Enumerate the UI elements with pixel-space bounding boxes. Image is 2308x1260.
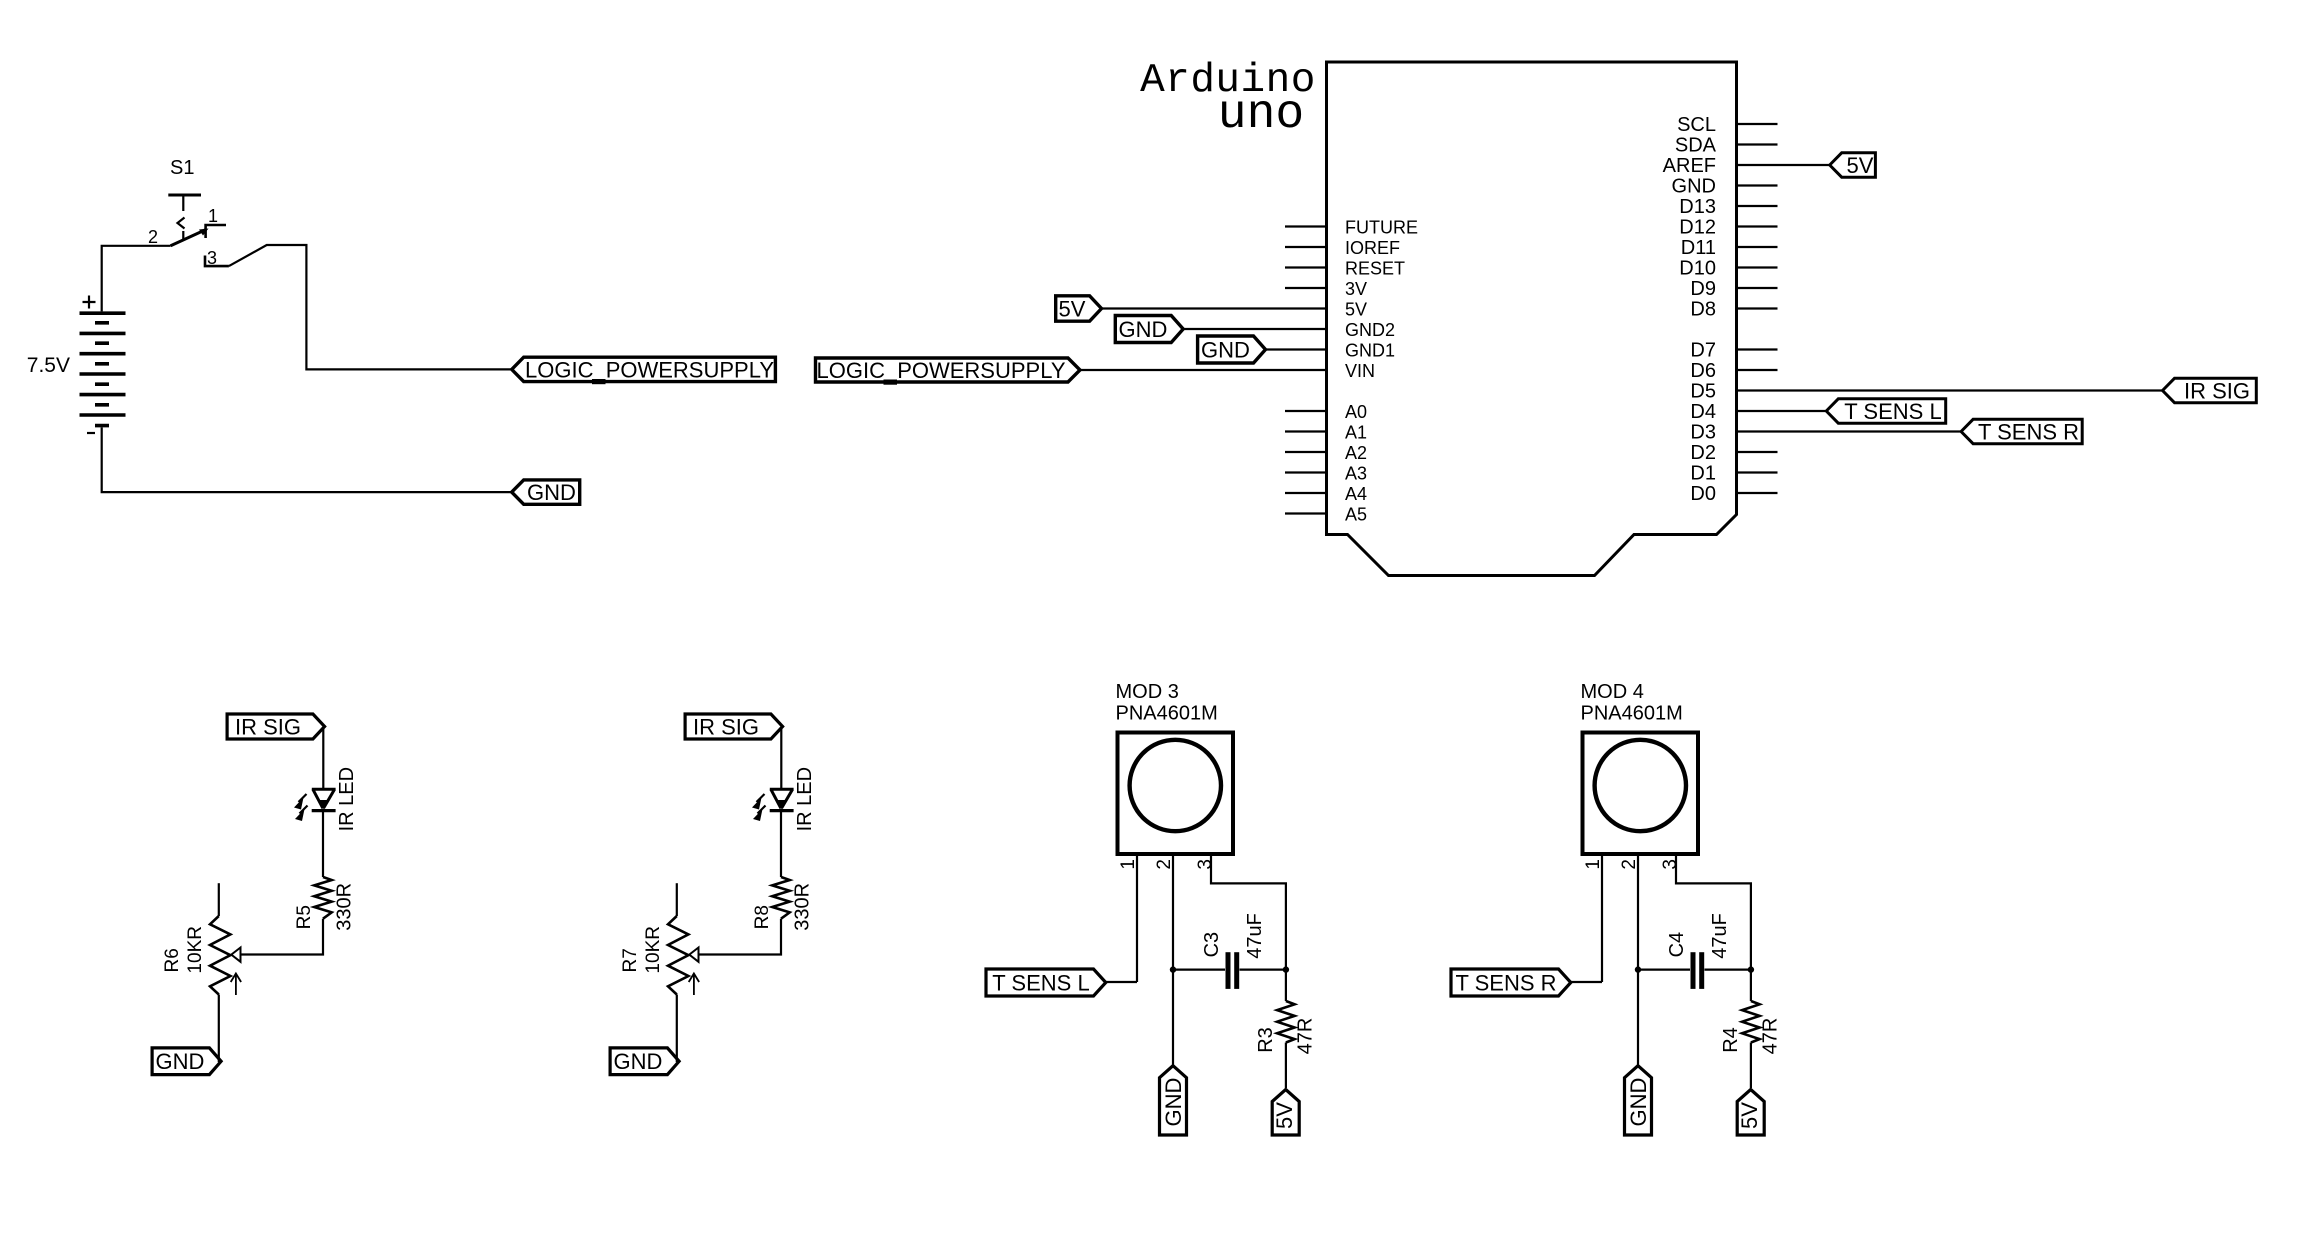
actuator dashed link <box>182 197 184 212</box>
LED D2 IR LED <box>752 767 816 831</box>
svg-text:AREF: AREF <box>1663 155 1716 177</box>
svg-text:GND: GND <box>156 1049 205 1074</box>
left pin A3 <box>1285 471 1327 473</box>
net flag IR SIG <box>2163 378 2257 403</box>
svg-text:GND1: GND1 <box>1345 341 1395 361</box>
svg-text:10KR: 10KR <box>185 926 206 974</box>
svg-text:10KR: 10KR <box>643 926 664 974</box>
wire pot to GND <box>219 995 221 1062</box>
svg-text:2: 2 <box>1619 859 1640 870</box>
wire pin AREF to 5V flag <box>1737 164 1830 166</box>
svg-text:1: 1 <box>208 206 218 226</box>
left pin IOREF <box>1285 246 1327 248</box>
svg-text:IR LED: IR LED <box>794 767 816 831</box>
net flag 5V <box>1830 153 1876 178</box>
wire 5V flag to pin 5V <box>1102 307 1327 309</box>
pin 3 <box>1676 854 1751 1001</box>
wire R8 to pot wiper <box>699 919 782 955</box>
svg-text:GND: GND <box>1672 176 1716 198</box>
plus sign <box>83 296 96 309</box>
svg-text:GND2: GND2 <box>1345 320 1395 340</box>
svg-text:A4: A4 <box>1345 484 1367 504</box>
net flag T SENS R <box>1451 969 1571 996</box>
svg-text:D10: D10 <box>1679 258 1716 280</box>
right pin D2 <box>1737 451 1778 453</box>
long plates <box>80 313 126 415</box>
svg-text:GND: GND <box>1161 1078 1186 1127</box>
svg-text:VIN: VIN <box>1345 361 1375 381</box>
svg-text:5V: 5V <box>1059 296 1086 321</box>
svg-text:D11: D11 <box>1681 237 1716 259</box>
resistor R3 47R <box>1255 1001 1317 1054</box>
moving contact arm <box>171 230 206 246</box>
net flag 5V <box>1272 1090 1299 1136</box>
pin 1 contact <box>206 225 226 238</box>
wire pin D5 to IR SIG flag <box>1737 389 2163 391</box>
emission arrows <box>757 794 765 802</box>
minus sign <box>87 432 95 434</box>
svg-text:LOGIC_POWERSUPPLY: LOGIC_POWERSUPPLY <box>817 358 1066 383</box>
right pin D12 <box>1737 225 1778 227</box>
svg-text:D1: D1 <box>1690 463 1716 485</box>
junction at R3 top <box>1283 966 1289 972</box>
wire pin2 to C4 <box>1638 968 1690 970</box>
wiper arrow <box>689 948 698 962</box>
svg-text:D3: D3 <box>1690 422 1716 444</box>
resistive track <box>668 916 688 995</box>
pin 3 contact <box>205 256 229 267</box>
left pin A5 <box>1285 512 1327 514</box>
svg-text:330R: 330R <box>334 883 356 931</box>
svg-text:3: 3 <box>1195 859 1216 870</box>
left pin A1 <box>1285 430 1327 432</box>
top terminal <box>676 883 678 916</box>
svg-text:R5: R5 <box>294 905 315 929</box>
net flag GND <box>512 480 580 505</box>
svg-text:IR LED: IR LED <box>336 767 358 831</box>
wire pin2 to C3 <box>1173 968 1225 970</box>
svg-text:5V: 5V <box>1272 1102 1297 1129</box>
svg-text:MOD 4: MOD 4 <box>1581 681 1644 703</box>
module MOD3 body <box>1118 733 1234 855</box>
wire LOGIC_POWERSUPPLY flag to pin VIN <box>1080 369 1327 371</box>
net flag GND <box>1115 316 1183 343</box>
svg-text:GND: GND <box>1201 337 1250 362</box>
net flag 5V <box>1056 296 1102 322</box>
svg-text:A0: A0 <box>1345 402 1367 422</box>
net flag LOGIC_POWERSUPPLY <box>816 358 1081 385</box>
svg-text:5V: 5V <box>1847 153 1874 178</box>
svg-text:GND: GND <box>527 480 576 505</box>
left pin FUTURE <box>1285 225 1327 227</box>
svg-text:D13: D13 <box>1679 196 1716 218</box>
wire IR SIG to LED anode <box>322 728 324 789</box>
switch S1 <box>148 157 229 268</box>
LED D1 IR LED <box>294 767 358 831</box>
actuator T bar <box>168 194 201 197</box>
capacitor C4 47uF <box>1666 913 1731 989</box>
svg-text:PNA4601M: PNA4601M <box>1116 703 1218 725</box>
svg-text:D12: D12 <box>1679 217 1716 239</box>
left pin A4 <box>1285 492 1327 494</box>
net flag IR SIG <box>227 714 325 739</box>
svg-text:IR SIG: IR SIG <box>2184 378 2250 403</box>
right pin D6 <box>1737 369 1778 371</box>
battery BT1 7.5V <box>27 296 126 434</box>
wire pin D3 to T SENS R flag <box>1737 430 1962 432</box>
right pin GND <box>1737 184 1778 186</box>
wire GND flag to pin GND1 <box>1266 348 1327 350</box>
wire T SENS R to pin 1 <box>1571 981 1602 983</box>
right pin D10 <box>1737 266 1778 268</box>
svg-text:D6: D6 <box>1690 360 1716 382</box>
right pin D11 <box>1737 246 1778 248</box>
svg-text:D8: D8 <box>1690 299 1716 321</box>
wiper arrow <box>231 948 240 962</box>
right pin D9 <box>1737 287 1778 289</box>
top terminal <box>218 883 220 916</box>
junction on pin 2 net <box>1170 966 1176 972</box>
svg-text:1: 1 <box>1583 859 1604 870</box>
svg-text:MOD 3: MOD 3 <box>1116 681 1179 703</box>
svg-text:D5: D5 <box>1690 381 1716 403</box>
adjust arrow <box>689 974 699 996</box>
svg-text:T SENS L: T SENS L <box>1844 399 1941 424</box>
right pin SDA <box>1737 143 1778 145</box>
svg-text:D0: D0 <box>1690 483 1716 505</box>
svg-text:A1: A1 <box>1345 423 1367 443</box>
arm arrowhead <box>199 229 209 236</box>
net flag GND <box>152 1048 221 1075</box>
svg-text:A2: A2 <box>1345 443 1367 463</box>
svg-text:PNA4601M: PNA4601M <box>1581 703 1683 725</box>
module MOD3 lens circle <box>1130 740 1221 831</box>
svg-text:R4: R4 <box>1720 1027 1742 1053</box>
net flag T SENS R <box>1961 419 2082 444</box>
right pin D8 <box>1737 307 1778 309</box>
svg-text:T SENS R: T SENS R <box>1455 970 1556 995</box>
svg-text:47uF: 47uF <box>1244 913 1266 959</box>
wire pin D4 to T SENS L flag <box>1737 410 1827 412</box>
potentiometer R6 10KR <box>162 883 241 995</box>
svg-text:T SENS R: T SENS R <box>1978 419 2079 444</box>
module MOD4 body <box>1583 733 1699 855</box>
svg-text:330R: 330R <box>792 883 814 931</box>
net flag GND <box>610 1048 679 1075</box>
resistor R8 330R <box>752 877 814 931</box>
wire GND flag to pin GND2 <box>1183 328 1326 330</box>
svg-text:2: 2 <box>1154 859 1175 870</box>
resistor R5 330R <box>294 877 356 931</box>
left pin A0 <box>1285 410 1327 412</box>
svg-text:A3: A3 <box>1345 464 1367 484</box>
net flag 5V <box>1737 1090 1764 1136</box>
svg-text:3V: 3V <box>1345 279 1367 299</box>
svg-text:IOREF: IOREF <box>1345 238 1400 258</box>
net flag GND <box>1160 1066 1187 1135</box>
wire pot to GND <box>677 995 679 1062</box>
svg-text:C3: C3 <box>1201 932 1223 958</box>
svg-text:C4: C4 <box>1666 932 1688 958</box>
svg-text:1: 1 <box>1118 859 1139 870</box>
wire IR SIG to LED anode <box>780 728 782 789</box>
net flag LOGIC_POWERSUPPLY <box>512 357 776 384</box>
svg-text:R6: R6 <box>162 948 183 972</box>
wire LED cathode to R <box>780 811 782 877</box>
svg-text:D4: D4 <box>1690 401 1716 423</box>
left pin RESET <box>1285 266 1327 268</box>
wire C4 to R4 node <box>1705 968 1751 970</box>
net flag GND <box>1625 1066 1652 1135</box>
pin 3 <box>1211 854 1286 1001</box>
svg-text:D2: D2 <box>1690 442 1716 464</box>
cathode bar <box>312 809 336 812</box>
wire battery+ to switch pin2 <box>102 246 171 312</box>
wire R5 to pot wiper <box>241 919 324 955</box>
right pin SCL <box>1737 123 1778 125</box>
resistive track <box>210 916 230 995</box>
left pin 3V <box>1285 287 1327 289</box>
right pin D13 <box>1737 205 1778 207</box>
emission arrows <box>299 794 307 802</box>
resistor R4 47R <box>1720 1001 1782 1054</box>
svg-text:T SENS L: T SENS L <box>992 970 1089 995</box>
junction on pin 2 net <box>1635 966 1641 972</box>
svg-text:47R: 47R <box>1295 1018 1317 1055</box>
svg-text:5V: 5V <box>1345 300 1367 320</box>
wire R4 to 5V <box>1750 1043 1752 1089</box>
svg-text:47uF: 47uF <box>1709 913 1731 959</box>
svg-text:FUTURE: FUTURE <box>1345 218 1418 238</box>
svg-text:R7: R7 <box>620 948 641 972</box>
svg-text:uno: uno <box>1218 88 1304 142</box>
svg-text:7.5V: 7.5V <box>27 354 70 377</box>
svg-text:A5: A5 <box>1345 505 1367 525</box>
net flag GND <box>1198 336 1266 363</box>
pin 2 <box>1172 854 1174 1065</box>
wire switch pin3 to LOGIC_POWERSUPPLY <box>229 245 512 369</box>
capacitor C3 47uF <box>1201 913 1266 989</box>
svg-text:GND: GND <box>1626 1078 1651 1127</box>
wire T SENS L to pin 1 <box>1106 981 1137 983</box>
svg-text:IR SIG: IR SIG <box>693 714 759 739</box>
svg-text:S1: S1 <box>170 157 194 179</box>
module MOD4 lens circle <box>1595 740 1686 831</box>
net flag IR SIG <box>685 714 783 739</box>
wire R3 to 5V <box>1285 1043 1287 1089</box>
svg-text:LOGIC_POWERSUPPLY: LOGIC_POWERSUPPLY <box>525 357 774 382</box>
svg-text:D7: D7 <box>1690 340 1716 362</box>
module U1 body <box>1327 62 1737 576</box>
adjust arrow <box>231 974 241 996</box>
right pin D7 <box>1737 348 1778 350</box>
svg-text:R8: R8 <box>752 905 773 929</box>
right pin D0 <box>1737 492 1778 494</box>
svg-text:RESET: RESET <box>1345 259 1405 279</box>
svg-text:GND: GND <box>1119 317 1168 342</box>
net flag T SENS L <box>986 969 1106 996</box>
pin 1 <box>1601 854 1603 982</box>
svg-text:R3: R3 <box>1255 1027 1277 1053</box>
svg-text:GND: GND <box>614 1049 663 1074</box>
right pin D1 <box>1737 471 1778 473</box>
svg-text:5V: 5V <box>1737 1102 1762 1129</box>
svg-text:3: 3 <box>1660 859 1681 870</box>
cathode bar <box>770 809 794 812</box>
junction at R4 top <box>1748 966 1754 972</box>
svg-text:SDA: SDA <box>1675 135 1717 157</box>
svg-text:IR SIG: IR SIG <box>235 714 301 739</box>
wire LED cathode to R <box>322 811 324 877</box>
wire battery- to GND <box>102 428 512 493</box>
net flag T SENS L <box>1826 399 1945 424</box>
pin 2 <box>1637 854 1639 1065</box>
pin 1 <box>1136 854 1138 982</box>
left pin A2 <box>1285 451 1327 453</box>
potentiometer R7 10KR <box>620 883 699 995</box>
short plates <box>95 323 109 426</box>
wire C3 to R3 node <box>1240 968 1286 970</box>
svg-text:47R: 47R <box>1760 1018 1782 1055</box>
svg-text:SCL: SCL <box>1677 114 1716 136</box>
svg-text:2: 2 <box>148 227 158 247</box>
svg-text:D9: D9 <box>1690 278 1716 300</box>
